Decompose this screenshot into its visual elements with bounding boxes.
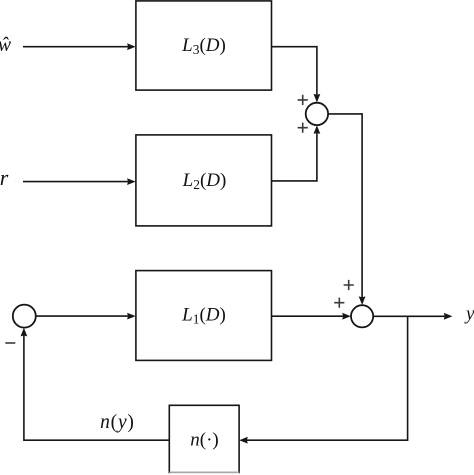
- svg-text:r: r: [0, 165, 9, 190]
- wire w-hat input: [23, 46, 129, 48]
- block L3: [136, 1, 272, 90]
- plus sign S2 left: [334, 298, 344, 308]
- wire S3 to L1: [36, 315, 129, 317]
- summing junction S2: [351, 305, 373, 327]
- wire S2 to output y: [373, 315, 445, 317]
- svg-text:y: y: [464, 303, 474, 324]
- wire L1 to S2: [272, 315, 344, 317]
- summing junction S1: [306, 103, 328, 125]
- arrowhead into S2 top: [359, 296, 366, 305]
- arrowhead into N right side: [239, 437, 248, 444]
- arrowhead into S2 left: [342, 313, 351, 320]
- svg-text:L2(D): L2(D): [182, 170, 227, 192]
- wire r input: [23, 181, 129, 183]
- wire L2 to S1: [272, 133, 317, 181]
- arrowhead into L1: [127, 313, 136, 320]
- minus sign S3: [5, 342, 15, 344]
- wire feedback down from output junction: [247, 316, 408, 440]
- summing junction S3: [13, 305, 36, 328]
- svg-text:L3(D): L3(D): [181, 35, 226, 57]
- wire S1 to S2: [328, 114, 362, 298]
- plus sign S1 upper: [298, 95, 308, 105]
- arrowhead into S1 top: [314, 94, 321, 103]
- plus sign S1 lower: [298, 123, 308, 133]
- arrowhead output y: [444, 313, 453, 320]
- svg-text:ŵ: ŵ: [0, 35, 11, 56]
- arrowhead into L2: [127, 178, 136, 185]
- plus sign S2 upper: [344, 280, 354, 290]
- block N bottom edge (faded): [169, 471, 239, 473]
- svg-text:n(y): n(y): [100, 412, 135, 433]
- wire L3 to S1: [272, 47, 317, 96]
- arrowhead into L3: [127, 43, 136, 50]
- arrowhead into S3 bottom: [21, 328, 28, 337]
- wire N output to S3: [24, 335, 169, 440]
- svg-text:L1(D): L1(D): [181, 304, 226, 326]
- block L1: [136, 271, 272, 361]
- arrowhead into S1 bottom: [314, 125, 321, 134]
- block L2: [136, 135, 272, 226]
- block N nonlinearity: [169, 405, 239, 473]
- svg-text:n(·): n(·): [190, 429, 218, 450]
